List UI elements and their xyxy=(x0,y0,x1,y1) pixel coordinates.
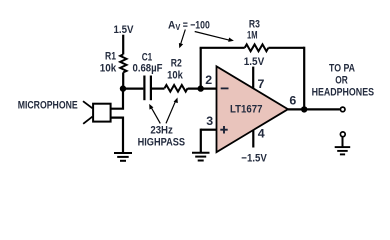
svg-text:OR: OR xyxy=(335,75,348,87)
value label R1 10k xyxy=(100,51,117,75)
resistor R3 xyxy=(245,44,269,51)
op-amp U1 LT1677 triangle xyxy=(217,66,289,152)
pin 2 label xyxy=(205,73,212,87)
svg-text:10k: 10k xyxy=(167,69,183,81)
output terminal open circle xyxy=(340,107,345,112)
svg-text:HEADPHONES: HEADPHONES xyxy=(312,86,375,98)
wire pin 4 supply xyxy=(252,130,254,147)
arrow from Av label to R3 xyxy=(195,32,234,42)
gain label Av = -100 xyxy=(168,19,210,32)
svg-text:TO PA: TO PA xyxy=(329,63,355,75)
pin 3 label xyxy=(206,114,213,128)
value label R3 1M xyxy=(247,18,260,41)
svg-text:2: 2 xyxy=(205,73,212,87)
svg-text:LT1677: LT1677 xyxy=(230,103,263,115)
pin 4 label xyxy=(258,126,265,140)
wire feedback top left xyxy=(200,47,245,49)
svg-text:1M: 1M xyxy=(247,29,258,41)
op-amp inverting input minus sign xyxy=(221,87,229,89)
wire pin 3 to ground xyxy=(201,129,217,153)
wire feedback left leg xyxy=(200,48,202,89)
wire supply to R1 xyxy=(122,35,124,55)
svg-text:7: 7 xyxy=(258,77,265,91)
svg-text:HIGHPASS: HIGHPASS xyxy=(138,137,186,149)
wire pin 7 supply xyxy=(252,67,254,89)
wire op-amp output xyxy=(288,108,340,110)
svg-text:0.68µF: 0.68µF xyxy=(133,62,163,74)
wire C1 to R2 xyxy=(152,87,165,89)
microphone chevron leads xyxy=(83,101,93,124)
label MICROPHONE xyxy=(18,99,78,111)
wire feedback right leg xyxy=(303,47,305,110)
wire microphone output to node A xyxy=(111,89,123,109)
value label C1 0.68uF xyxy=(133,51,163,74)
label 23Hz HIGHPASS xyxy=(138,125,186,149)
op-amp non-inverting input plus sign xyxy=(220,126,227,134)
part label LT1677 xyxy=(230,103,263,115)
node label 1.5V (pin 7 supply) xyxy=(244,56,265,68)
svg-text:R1: R1 xyxy=(105,51,116,63)
svg-text:AV = −100: AV = −100 xyxy=(168,19,210,32)
svg-text:10k: 10k xyxy=(100,62,117,74)
svg-text:6: 6 xyxy=(289,94,296,108)
svg-text:23Hz: 23Hz xyxy=(150,125,173,137)
arrow highpass to R2 xyxy=(166,98,178,124)
value label R2 10k xyxy=(167,57,183,81)
wire R2 to pin 2 xyxy=(188,87,217,89)
svg-text:4: 4 xyxy=(258,126,265,140)
svg-text:1.5V: 1.5V xyxy=(114,24,134,36)
svg-text:−1.5V: −1.5V xyxy=(241,153,267,165)
svg-text:R2: R2 xyxy=(171,57,182,69)
ground (pin 3) xyxy=(192,153,210,161)
output return terminal circle xyxy=(340,132,345,137)
microphone element box xyxy=(93,104,111,122)
wire node A to C1 xyxy=(123,87,143,89)
wire microphone return to ground xyxy=(111,118,123,153)
svg-text:1.5V: 1.5V xyxy=(244,56,265,68)
capacitor C1 xyxy=(144,76,151,101)
output label TO PA OR HEADPHONES xyxy=(312,63,375,99)
resistor R2 xyxy=(165,85,188,92)
arrow from Av label to R2 xyxy=(179,30,185,49)
node B junction dot xyxy=(198,85,204,91)
ground (microphone) xyxy=(114,153,132,161)
svg-text:MICROPHONE: MICROPHONE xyxy=(18,99,78,111)
pin 6 label xyxy=(289,94,296,108)
ground (output return) xyxy=(335,137,351,155)
wire feedback top right xyxy=(268,47,304,49)
wire R1 to node A xyxy=(122,72,124,88)
pin 7 label xyxy=(258,77,265,91)
arrow highpass to C1 xyxy=(149,104,160,124)
node label 1.5V supply (left) xyxy=(114,24,134,36)
svg-text:3: 3 xyxy=(206,114,213,128)
node A junction dot xyxy=(120,85,126,91)
node label -1.5V (pin 4 supply) xyxy=(241,153,267,165)
node C junction dot (output/feedback) xyxy=(301,106,307,112)
resistor R1 xyxy=(120,54,126,72)
